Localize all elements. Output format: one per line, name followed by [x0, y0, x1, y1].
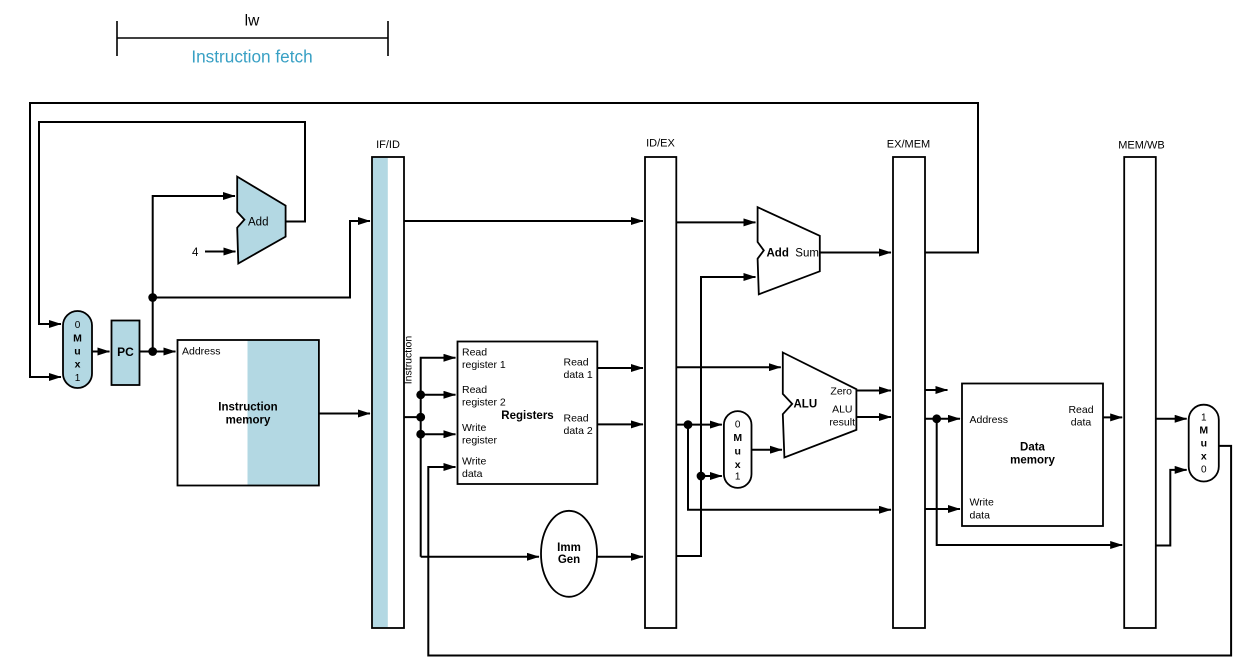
svg-text:PC: PC [117, 345, 134, 359]
svg-text:Instruction: Instruction [218, 402, 277, 414]
wire mux M2 to ALU [752, 449, 783, 451]
svg-text:IF/ID: IF/ID [376, 139, 400, 151]
svg-text:Registers: Registers [501, 410, 553, 422]
svg-text:data 2: data 2 [564, 425, 593, 437]
wire IF/ID PC to ID/EX [404, 220, 643, 222]
svg-text:x: x [75, 359, 81, 371]
wire PC+4 feedback (Add to PC mux input 0) [39, 122, 305, 324]
svg-text:Read: Read [1068, 404, 1093, 416]
pipeline register MEM/WB [1118, 140, 1164, 629]
svg-text:1: 1 [1201, 413, 1207, 424]
svg-text:Read: Read [462, 384, 487, 396]
wire immediate to mux M2 input 1 [701, 475, 722, 477]
svg-text:x: x [1201, 451, 1207, 463]
svg-text:4: 4 [192, 247, 199, 259]
svg-text:0: 0 [1201, 465, 1207, 476]
svg-text:Add: Add [248, 217, 268, 229]
wire PC to Instruction memory Address [140, 351, 176, 353]
svg-text:Read: Read [564, 413, 589, 425]
block Data memory [962, 384, 1103, 527]
wire instruction to Read register 2 [421, 394, 456, 396]
svg-text:Address: Address [182, 346, 221, 358]
node junction read register 2 [416, 390, 425, 399]
svg-text:Data: Data [1020, 442, 1046, 454]
wire Add Sum to EX/MEM [820, 252, 891, 254]
svg-text:M: M [733, 432, 742, 444]
svg-text:memory: memory [226, 415, 271, 427]
wire instruction to Write register [421, 433, 456, 435]
wire instruction bus vertical [421, 358, 456, 557]
svg-text:register 2: register 2 [462, 397, 506, 409]
wire read data to mux M3 input 1 [1156, 418, 1187, 420]
pipeline register ID/EX [645, 138, 676, 628]
wire Zero stub [925, 389, 948, 391]
wire instruction to Imm Gen [421, 556, 539, 558]
wire ALU result to mux M3 input 0 [1156, 470, 1187, 546]
wire Read data 2 to mux M2 input 0 [676, 424, 722, 426]
svg-text:lw: lw [245, 13, 260, 30]
wire Read data 2 to ID/EX [597, 423, 643, 425]
wire Read data 1 to ID/EX [597, 367, 643, 369]
node junction read data 2 [684, 420, 693, 429]
wire branch-target feedback (EX/MEM to PC mux input 1) [30, 103, 978, 377]
node junction instruction/incoming [416, 413, 425, 422]
svg-text:ALU: ALU [794, 399, 818, 411]
node junction immediate [697, 472, 706, 481]
svg-text:u: u [1201, 438, 1207, 450]
node junction ALU result [932, 414, 941, 423]
wire constant 4 to Add bottom input [205, 251, 236, 253]
pipeline register IF/ID [372, 139, 404, 628]
svg-text:0: 0 [75, 320, 81, 331]
ALU [783, 353, 857, 458]
wire ALU result to MEM/WB [937, 419, 1122, 545]
wire PC value up to Add top input [153, 196, 235, 352]
svg-text:Address: Address [970, 414, 1009, 426]
wire ID/EX PC to Add [676, 221, 755, 223]
svg-text:Gen: Gen [558, 554, 580, 566]
wire immediate to Add bottom [676, 277, 755, 556]
wire PC value to IF/ID [153, 221, 370, 298]
svg-text:register 1: register 1 [462, 359, 506, 371]
block Instruction memory [178, 340, 319, 486]
svg-text:Read: Read [564, 357, 589, 369]
svg-text:data: data [1071, 417, 1092, 429]
wire IF/ID instruction out [404, 416, 421, 418]
wire Read data to MEM/WB [1103, 416, 1122, 418]
ellipse Imm Gen [541, 511, 597, 597]
svg-text:Imm: Imm [557, 542, 581, 554]
svg-text:Add: Add [767, 248, 789, 260]
svg-text:Write: Write [462, 456, 486, 468]
svg-text:data 1: data 1 [564, 369, 593, 381]
wire ALU result to EX/MEM [856, 416, 891, 418]
svg-text:register: register [462, 435, 498, 447]
svg-text:data: data [462, 468, 483, 480]
svg-text:M: M [1199, 425, 1208, 437]
wire Instruction memory to IF/ID [319, 413, 370, 415]
svg-text:x: x [735, 459, 741, 471]
wire store data to Data memory Write data [925, 508, 960, 510]
svg-text:ALU: ALU [832, 404, 852, 416]
svg-text:Instruction: Instruction [403, 336, 415, 385]
wire Read data 1 to ALU [676, 366, 781, 368]
svg-text:Zero: Zero [830, 386, 852, 398]
adder Add (PC+4) [237, 177, 285, 264]
svg-text:1: 1 [75, 373, 81, 384]
svg-text:1: 1 [735, 472, 741, 483]
svg-text:Sum: Sum [795, 248, 819, 260]
svg-text:result: result [829, 417, 855, 429]
mux M3 (write-back source) [1189, 405, 1219, 482]
svg-text:Write: Write [462, 422, 486, 434]
wire write-back data (WB mux to Registers Write data) [428, 446, 1231, 656]
pipeline register EX/MEM [887, 138, 930, 628]
mux M2 (ALU source) [724, 411, 752, 488]
svg-text:Instruction fetch: Instruction fetch [191, 46, 312, 66]
svg-text:u: u [734, 446, 740, 458]
svg-text:u: u [74, 346, 80, 358]
svg-text:ID/EX: ID/EX [646, 138, 675, 150]
adder Add (branch target) [758, 207, 820, 294]
block Registers [458, 342, 598, 485]
node junction PC branch [148, 293, 157, 302]
mux M1 (PC source mux) [63, 311, 92, 388]
lw bracket line [117, 21, 388, 56]
wire Zero to EX/MEM [856, 390, 891, 392]
svg-text:0: 0 [735, 420, 741, 431]
svg-text:memory: memory [1010, 455, 1055, 467]
wire Imm Gen to ID/EX [597, 556, 643, 558]
node junction PC output [148, 347, 157, 356]
svg-text:EX/MEM: EX/MEM [887, 138, 930, 150]
svg-text:Write: Write [970, 497, 994, 509]
wire ALU result to Data memory Address [925, 418, 960, 420]
svg-text:data: data [970, 510, 991, 522]
node junction write register [416, 430, 425, 439]
register PC [112, 321, 140, 386]
svg-text:MEM/WB: MEM/WB [1118, 140, 1164, 152]
wire store data to EX/MEM [688, 425, 891, 510]
wire mux M1 to PC [92, 351, 110, 353]
svg-text:Read: Read [462, 347, 487, 359]
svg-text:M: M [73, 333, 82, 345]
